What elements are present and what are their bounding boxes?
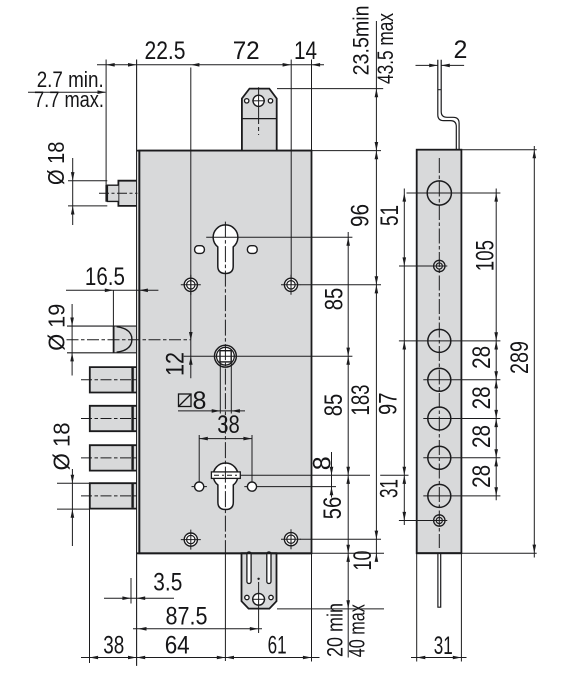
svg-text:105: 105	[471, 240, 499, 271]
svg-text:Ø 18: Ø 18	[49, 422, 75, 470]
svg-text:2: 2	[454, 36, 468, 64]
svg-text:43.5 max: 43.5 max	[373, 13, 398, 84]
svg-text:51: 51	[376, 205, 404, 226]
svg-text:28: 28	[468, 425, 496, 448]
svg-text:28: 28	[468, 465, 496, 488]
svg-text:289: 289	[506, 341, 534, 374]
svg-text:85: 85	[320, 394, 348, 417]
svg-text:72: 72	[233, 37, 260, 65]
svg-text:12: 12	[161, 352, 189, 376]
svg-text:10: 10	[349, 551, 377, 571]
svg-text:56: 56	[319, 497, 347, 520]
svg-text:Ø 18: Ø 18	[43, 142, 69, 186]
svg-text:3.5: 3.5	[153, 569, 182, 597]
svg-text:96: 96	[347, 204, 375, 227]
svg-text:16.5: 16.5	[85, 263, 125, 291]
svg-text:31: 31	[376, 479, 404, 498]
svg-text:23.5min: 23.5min	[349, 5, 374, 75]
svg-text:31: 31	[434, 632, 453, 660]
svg-text:38: 38	[217, 411, 240, 439]
svg-text:8: 8	[308, 456, 336, 470]
svg-text:61: 61	[268, 632, 287, 660]
svg-text:87.5: 87.5	[166, 602, 208, 630]
svg-text:38: 38	[103, 632, 124, 660]
svg-text:7.7 max.: 7.7 max.	[34, 87, 104, 112]
svg-text:97: 97	[374, 393, 402, 416]
svg-text:28: 28	[468, 386, 496, 409]
svg-text:8: 8	[193, 387, 207, 415]
svg-text:28: 28	[468, 346, 496, 369]
svg-text:14: 14	[294, 37, 317, 65]
svg-text:64: 64	[165, 632, 190, 660]
svg-text:40 max: 40 max	[345, 604, 370, 657]
svg-text:183: 183	[347, 385, 375, 416]
svg-text:85: 85	[320, 288, 348, 311]
svg-text:22.5: 22.5	[145, 37, 186, 65]
svg-text:Ø 19: Ø 19	[43, 304, 69, 351]
